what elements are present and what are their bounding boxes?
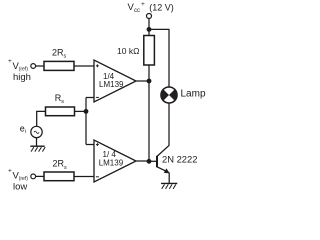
resistor 2Rs top [44, 61, 74, 70]
svg-text:low: low [13, 182, 27, 193]
label Vcc (12 V) [128, 1, 174, 14]
minus marker bottom opamp [96, 176, 99, 178]
svg-text:10 kΩ: 10 kΩ [117, 46, 139, 56]
wire output top [136, 80, 149, 82]
svg-text:+: + [8, 58, 12, 65]
wire [36, 138, 38, 147]
resistor Rs [46, 107, 75, 116]
wire to lamp [149, 29, 169, 87]
wire [74, 65, 94, 67]
wire emitter [168, 173, 170, 184]
op-amp U1 1/4 LM139 top [94, 60, 136, 102]
ground ei [30, 145, 44, 147]
svg-text:2Rs: 2Rs [53, 159, 68, 171]
wire [75, 110, 87, 112]
lamp [161, 87, 177, 103]
plus marker bottom opamp [96, 144, 99, 146]
wire [74, 176, 94, 178]
svg-text:2N 2222: 2N 2222 [162, 153, 197, 164]
wire lamp to collector [157, 103, 169, 156]
ground transistor [161, 182, 177, 184]
wire output bottom [136, 160, 149, 162]
wire [36, 65, 44, 67]
minus marker top opamp [96, 96, 99, 98]
wire [36, 175, 44, 177]
svg-text:cc: cc [134, 8, 140, 14]
wire [86, 97, 94, 99]
wire [148, 65, 150, 161]
label +Vref high [8, 58, 31, 83]
svg-text:high: high [13, 72, 31, 83]
svg-text:Rs: Rs [55, 93, 65, 105]
svg-text:+: + [141, 1, 145, 8]
transistor Q1 2N2222 base bar [156, 156, 158, 168]
terminal Vcc [147, 14, 152, 19]
svg-text:+: + [8, 168, 12, 175]
svg-text:ei: ei [20, 123, 26, 135]
node junction Rs [84, 110, 88, 114]
wire base [149, 160, 156, 162]
wire [85, 98, 87, 145]
wire [86, 144, 94, 146]
node output bottom [147, 160, 151, 164]
svg-text:LM139: LM139 [99, 80, 124, 89]
label +Vref low [8, 168, 28, 193]
wire [148, 19, 150, 36]
plus marker top opamp [96, 64, 99, 176]
resistor 10k [144, 36, 155, 66]
resistor 2Rs bottom [44, 172, 74, 181]
wire [37, 111, 46, 126]
node Vcc junction [147, 28, 151, 32]
svg-text:LM139: LM139 [99, 159, 124, 168]
svg-text:2Rs: 2Rs [52, 47, 67, 59]
node output top [147, 79, 151, 83]
terminal +Vref low [31, 174, 36, 179]
svg-text:(12 V): (12 V) [149, 2, 174, 12]
source ei [31, 126, 42, 137]
op-amp U2 1/4 LM139 bottom [94, 140, 136, 182]
svg-text:Lamp: Lamp [181, 88, 206, 99]
emitter [157, 167, 169, 173]
terminal +Vref high [31, 64, 36, 69]
